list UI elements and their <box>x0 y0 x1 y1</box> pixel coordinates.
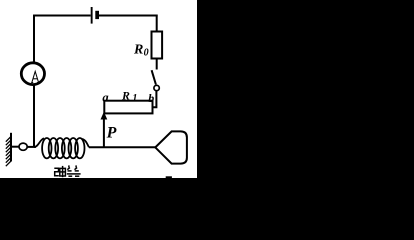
resistor R0 body <box>152 32 163 59</box>
wire switch to R1 <box>152 91 157 108</box>
bottom wire to cone <box>89 146 156 148</box>
ammeter A1 body <box>21 63 44 85</box>
spring entry curve <box>34 138 44 147</box>
wiper arrow shaft <box>103 118 105 148</box>
speaker cone <box>155 131 187 163</box>
wiper arrowhead <box>101 112 108 120</box>
spring label (Chinese: spring) char 2 <box>67 165 81 176</box>
svg-text:R: R <box>133 43 143 58</box>
switch blade <box>152 70 156 84</box>
spring coil loop 1 <box>42 138 51 158</box>
wire left vertical <box>33 15 35 148</box>
svg-text:R: R <box>121 89 130 103</box>
cut-off label under cone <box>166 176 172 178</box>
rheostat R1 body <box>104 101 152 114</box>
svg-text:1: 1 <box>132 93 137 104</box>
wire top-right horizontal <box>99 15 158 17</box>
spring coil loop 3 <box>55 138 64 158</box>
wall hatching <box>6 137 11 167</box>
svg-text:0: 0 <box>144 47 149 58</box>
spring exit curve <box>82 139 89 147</box>
wall anchor line <box>10 133 12 162</box>
spring coil loop 6 <box>75 138 84 158</box>
link ring <box>19 143 27 150</box>
battery long plate <box>91 7 93 24</box>
battery short thick plate <box>95 11 99 19</box>
wire R0 to switch <box>156 59 158 70</box>
svg-text:P: P <box>106 125 117 142</box>
svg-text:a: a <box>102 91 108 105</box>
spring coil loop 4 <box>62 138 71 158</box>
wire right vertical to R0 <box>156 15 158 32</box>
spring coil loop 2 <box>49 138 58 158</box>
wire top-left horizontal <box>33 15 90 17</box>
switch contact circle <box>154 85 159 90</box>
spring label (Chinese: spring) char 1 <box>54 166 65 177</box>
svg-text:b: b <box>148 91 154 105</box>
ammeter letter A <box>31 71 39 82</box>
wire wall to link ring <box>11 146 19 148</box>
wire ring to spring <box>27 146 36 148</box>
spring coil loop 5 <box>69 138 78 158</box>
